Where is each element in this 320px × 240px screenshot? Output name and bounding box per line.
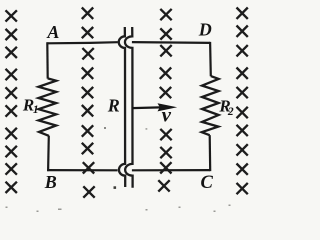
magnetic field crosses column 2 bbox=[82, 8, 95, 198]
scan specks bbox=[6, 127, 231, 212]
velocity arrow v head bbox=[158, 103, 178, 111]
resistor R2 zigzag bbox=[202, 76, 219, 135]
magnetic field crosses column 4 (right edge) bbox=[237, 8, 248, 195]
wire: right branch lower (R2 to C) bbox=[209, 135, 212, 171]
magnetic field crosses column 3 bbox=[158, 9, 171, 192]
wire: left branch lower (R1 to B) bbox=[47, 136, 50, 172]
wire: top rail A-D, right segment bbox=[132, 41, 210, 44]
svg-text:D: D bbox=[198, 19, 212, 39]
magnetic field crosses column 1 (left edge) bbox=[6, 10, 17, 193]
sliding rod R: right line with hops over rails bbox=[125, 27, 133, 188]
wire: left branch upper (A to R1) bbox=[46, 42, 49, 78]
svg-text:A: A bbox=[46, 22, 59, 42]
svg-text:2: 2 bbox=[227, 106, 234, 118]
wire: bottom rail B-C, left segment bbox=[47, 169, 118, 171]
svg-text:R: R bbox=[107, 96, 120, 116]
sliding rod R: left line with hops over rails bbox=[119, 27, 125, 187]
velocity arrow v shaft bbox=[132, 106, 160, 109]
resistor R1 zigzag bbox=[39, 78, 57, 135]
svg-text:v: v bbox=[162, 103, 172, 127]
wire: top rail A-D, left segment bbox=[47, 42, 118, 43]
svg-text:1: 1 bbox=[33, 104, 39, 116]
wire: right branch upper (D to R2) bbox=[209, 42, 212, 76]
svg-text:B: B bbox=[44, 172, 57, 192]
svg-text:C: C bbox=[201, 173, 214, 193]
wire: bottom rail B-C, right segment bbox=[132, 169, 210, 171]
